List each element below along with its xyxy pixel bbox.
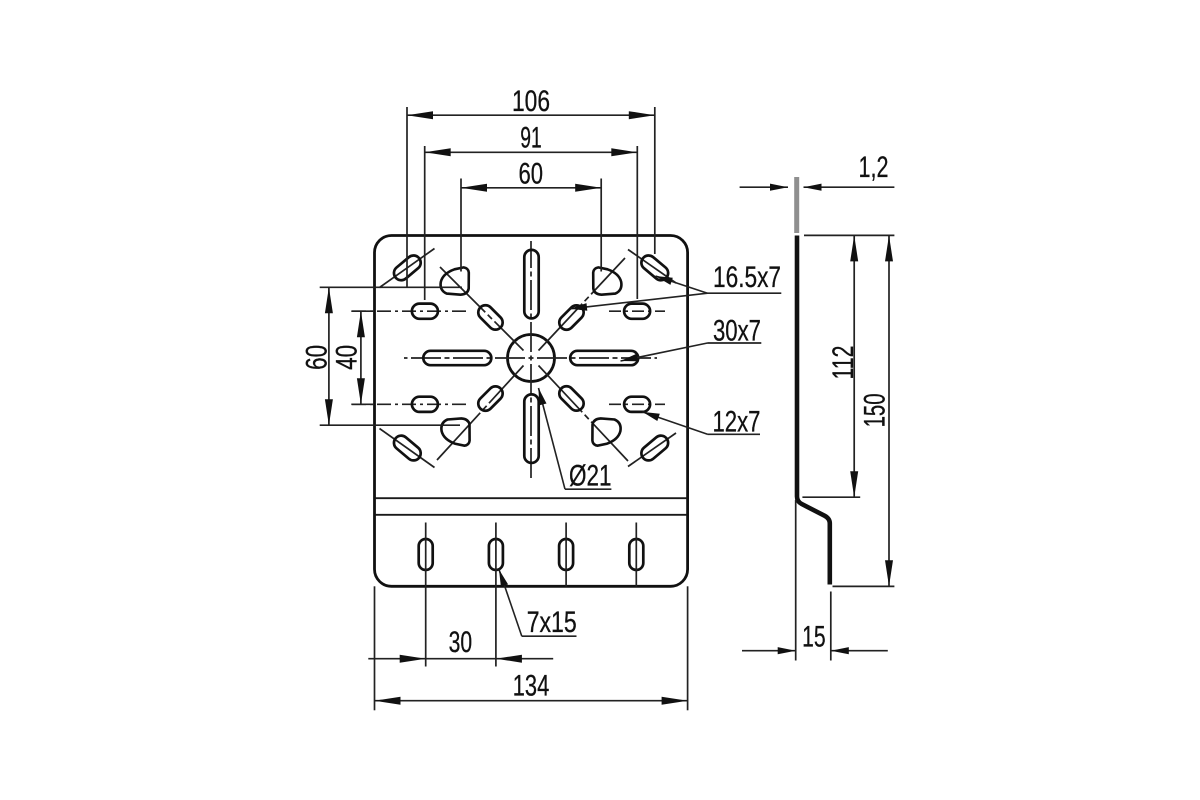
svg-text:12x7: 12x7 <box>713 406 761 439</box>
svg-text:134: 134 <box>513 670 550 703</box>
svg-text:112: 112 <box>827 346 860 380</box>
svg-text:91: 91 <box>520 122 542 155</box>
svg-text:Ø21: Ø21 <box>569 460 612 493</box>
svg-text:16.5x7: 16.5x7 <box>713 261 781 294</box>
svg-text:1,2: 1,2 <box>859 151 889 184</box>
svg-text:60: 60 <box>519 158 544 191</box>
svg-text:7x15: 7x15 <box>527 606 577 639</box>
svg-text:30: 30 <box>449 626 473 659</box>
svg-text:60: 60 <box>301 345 334 370</box>
svg-text:15: 15 <box>802 620 826 653</box>
svg-text:30x7: 30x7 <box>713 315 761 348</box>
svg-text:106: 106 <box>512 85 550 118</box>
svg-text:150: 150 <box>859 393 892 427</box>
svg-text:40: 40 <box>331 345 364 370</box>
